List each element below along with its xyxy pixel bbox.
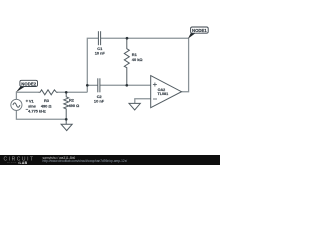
resistor R1	[124, 38, 129, 85]
ground (op-amp minus)	[129, 103, 140, 110]
voltage source V1	[11, 99, 22, 110]
wire R3 to left vertical	[58, 91, 87, 93]
node junction dot middle rail / R1	[125, 84, 128, 87]
svg-text:http://www.circuitlab.com/circ: http://www.circuitlab.com/circuit/cwqcha…	[43, 159, 128, 163]
svg-text:R3: R3	[44, 98, 50, 103]
wire op-amp minus input to ground	[135, 99, 151, 104]
resistor R2	[64, 92, 69, 119]
svg-text:4.775 kHz: 4.775 kHz	[28, 108, 46, 113]
op-amp OA2	[151, 76, 182, 108]
node NODE2 label	[16, 80, 38, 92]
node NODE1 label	[188, 27, 208, 39]
wire middle rail right of C2 to op-amp + input	[100, 84, 151, 86]
op-amp minus sign	[153, 98, 157, 100]
svg-text:40 kΩ: 40 kΩ	[132, 57, 143, 62]
svg-text:NODE1: NODE1	[192, 28, 207, 33]
V1 polarity -	[26, 108, 28, 110]
V1 polarity +	[26, 100, 28, 102]
capacitor C1	[98, 31, 100, 45]
node junction dot rail A / R2	[65, 91, 68, 94]
wire middle rail left of C2	[87, 84, 98, 86]
wire top rail right segment + right vertical + output stub	[101, 38, 189, 91]
node junction dot top rail / R1	[126, 37, 129, 40]
watermark bar	[0, 155, 220, 165]
resistor R3	[39, 90, 59, 95]
svg-text:490 Ω: 490 Ω	[69, 103, 80, 108]
svg-text:10 nF: 10 nF	[95, 50, 106, 55]
capacitor C2	[98, 78, 100, 92]
wire V1 bottom rail	[16, 111, 66, 119]
svg-text:10 nF: 10 nF	[94, 99, 105, 104]
ground (under R2)	[61, 119, 72, 130]
node junction dot middle rail / left vertical	[86, 84, 89, 87]
node junction dot bottom rail / ground	[65, 118, 68, 121]
svg-text:NODE2: NODE2	[21, 81, 36, 86]
wire V1 top to R3	[16, 92, 38, 99]
op-amp plus sign	[153, 83, 157, 87]
svg-text:TL081: TL081	[158, 92, 169, 96]
svg-text:−·−·− ▪LAB: −·−·− ▪LAB	[7, 161, 28, 165]
wire top rail left segment + left vertical	[87, 38, 98, 92]
